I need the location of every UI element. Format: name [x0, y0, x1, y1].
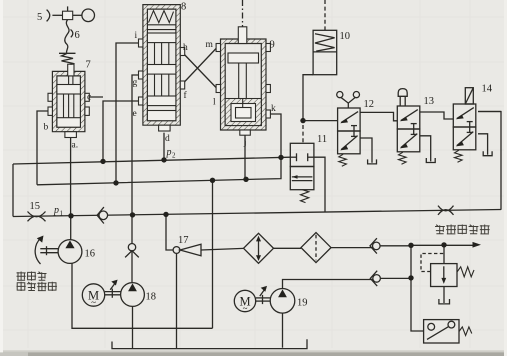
check valve on pump19 line	[370, 271, 380, 286]
wire: pump16 discharge to p1	[70, 216, 72, 240]
V8 port tabs	[139, 39, 143, 47]
relief valve (lube circuit)	[431, 264, 474, 287]
throttle valve 15	[28, 212, 46, 222]
svg-text:19: 19	[297, 298, 308, 309]
svg-text:l: l	[213, 98, 216, 108]
pressure switch	[424, 320, 472, 343]
engine driven pump 16	[35, 238, 82, 264]
oil tank	[112, 339, 307, 348]
wire: valve14 outlet to right riser	[478, 111, 501, 113]
wire: pump19 suction	[282, 313, 284, 348]
valve 13 drain	[420, 136, 431, 162]
svg-text:5: 5	[37, 12, 42, 23]
svg-text:12: 12	[364, 99, 375, 110]
svg-text:15: 15	[30, 201, 41, 212]
V9 port tabs	[216, 44, 220, 52]
wire: lubrication header with arrow	[411, 244, 474, 246]
wire: riser to relief valve	[443, 245, 445, 264]
wire: valve8 port i drop to bus B	[116, 43, 143, 183]
throttle (right, on line C)	[438, 206, 454, 215]
svg-text:18: 18	[146, 292, 157, 303]
wire: return drop from bus B to tank gallery	[212, 180, 214, 328]
svg-text:i: i	[135, 31, 138, 41]
reference designators	[30, 2, 493, 309]
wire: left riser joining bus A to line C	[12, 164, 14, 217]
valve 14 plunger actuator	[465, 88, 473, 104]
text: engine spindle drive note	[17, 272, 57, 292]
wire: bus B	[37, 157, 281, 184]
svg-text:b: b	[44, 123, 49, 133]
wire: valve 11 outlet to line C	[314, 157, 325, 212]
wire: bus A (p2 gallery)	[13, 157, 290, 164]
V7 port tabs	[48, 93, 52, 101]
manual pilot valve V7 body	[48, 64, 89, 137]
filter (diamond with dashed line)	[301, 233, 331, 263]
wire: pump18 discharge riser	[131, 215, 133, 283]
svg-text:9: 9	[270, 40, 275, 51]
svg-text:g: g	[133, 78, 138, 88]
svg-text:h: h	[183, 43, 188, 53]
svg-text:p: p	[166, 147, 172, 158]
flow indicator 17	[173, 244, 201, 256]
pump 19	[256, 288, 295, 313]
wire: 17 outlet to cooler	[201, 248, 244, 250]
svg-text:m: m	[206, 40, 214, 50]
svg-text:13: 13	[424, 96, 435, 107]
wire: node 303 to valve 12 inlet	[303, 120, 338, 122]
wire: line C (p1 main line)	[13, 210, 501, 217]
wire: valve13 outlet to valve14 inlet	[420, 112, 454, 119]
valve 14 drain	[478, 134, 488, 155]
hand lever 5	[47, 6, 95, 21]
wire: tank gallery return line	[72, 263, 213, 328]
svg-text:~: ~	[243, 303, 248, 313]
svg-text:d: d	[165, 134, 170, 144]
V8 spring (top chamber)	[149, 11, 174, 23]
wire: pump19 discharge line	[283, 278, 412, 288]
svg-text:a.: a.	[72, 141, 79, 151]
V9 stem	[238, 27, 247, 44]
wire: valve7 port b drop to bus B	[37, 111, 49, 185]
pilot line: node 303 to valve 11 (dashed)	[302, 125, 304, 143]
flexible link / spring 6	[59, 20, 76, 65]
wire: crossover f-m	[182, 48, 218, 86]
svg-text:8: 8	[181, 2, 186, 13]
svg-text:j: j	[243, 138, 247, 148]
wire: filter to check valve 3	[331, 247, 373, 249]
plunger valve 14	[453, 104, 476, 150]
pilot vent: dashed above element 10	[324, 0, 326, 30]
wire: check valve 3 to lube node	[380, 245, 411, 247]
svg-text:c: c	[87, 93, 91, 103]
svg-text:14: 14	[482, 84, 493, 95]
svg-text:~: ~	[91, 298, 96, 308]
check valve after filter	[370, 238, 380, 253]
svg-text:2: 2	[172, 152, 176, 160]
motor M of unit 19	[234, 290, 255, 311]
wire: valve8 port d (p2) drop to bus A	[163, 133, 165, 160]
wire: 17 drain to tank	[176, 253, 178, 348]
svg-text:10: 10	[340, 31, 351, 42]
wire: valve9 port k to bus A	[270, 114, 281, 157]
sequencing spool valve V8 body	[139, 5, 185, 131]
V7 spool internals	[57, 76, 81, 127]
wire: valve7 port a drop to p1	[70, 138, 72, 216]
distributor spool valve V9 body	[216, 27, 270, 135]
wire: right riser from line C up to valve 14 outlet	[478, 112, 501, 210]
valve 13 push button actuator	[398, 89, 407, 97]
valve 11 spring	[301, 190, 309, 203]
scan edge shading	[0, 350, 507, 352]
svg-text:7: 7	[86, 60, 91, 71]
svg-text:1: 1	[60, 210, 64, 218]
wire: pump18 suction	[132, 306, 134, 348]
junction nodes	[68, 118, 446, 281]
V7 stem	[68, 64, 74, 76]
roller lever valve 12	[338, 108, 361, 154]
valve 12 roller lever actuator	[337, 92, 360, 109]
relief valve drain	[443, 287, 445, 304]
wire: valve8 port e / valve7 port c to bus A	[85, 97, 143, 161]
push button valve 13	[397, 106, 420, 152]
pilot stem: dash-dot above valve 9	[242, 0, 244, 27]
svg-text:17: 17	[178, 235, 189, 246]
check valve above pump 18	[125, 244, 139, 258]
wire: feed down to flow indicator 17	[166, 214, 173, 250]
wire: valve12 outlet to valve13 inlet	[360, 112, 397, 120]
svg-text:6: 6	[75, 30, 80, 41]
wire: valve9 port j drop to bus B	[244, 135, 246, 179]
svg-text:e: e	[133, 109, 137, 119]
wire: element10 to node 303	[303, 75, 313, 121]
pump 18	[105, 281, 145, 306]
svg-text:16: 16	[85, 249, 96, 260]
check valve on p1 line	[97, 207, 108, 223]
wire: valve8 port g drop to p1	[132, 75, 143, 215]
pilot operated valve 11	[290, 143, 314, 189]
wire: crossover h-l	[182, 52, 218, 89]
svg-text:p: p	[53, 205, 59, 216]
wire: lube node down to pressure switch	[411, 245, 424, 331]
V9 internals	[228, 53, 259, 100]
motor M of unit 18	[82, 284, 104, 306]
text: to bearing lubrication	[435, 225, 490, 235]
valve 12 drain	[360, 138, 372, 163]
relief valve pilot (dashed)	[421, 254, 444, 272]
svg-text:11: 11	[317, 134, 327, 145]
svg-text:k: k	[271, 104, 276, 114]
pilot relief element 10	[313, 30, 337, 74]
V8 spool internals	[147, 33, 176, 121]
wire: cooler to filter	[274, 247, 302, 249]
cooler (diamond with arrow)	[244, 233, 274, 263]
